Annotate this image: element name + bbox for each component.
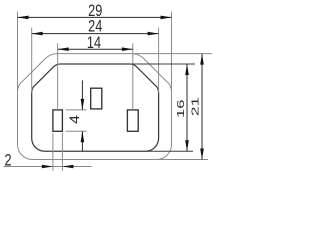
- extension line y=109.9 (slot top, for 4): [66, 109, 87, 111]
- arrowhead 4 up: [81, 131, 85, 142]
- extension line left x=31.7 (for 24): [31, 28, 33, 93]
- arrowhead 21 top: [200, 54, 204, 65]
- svg-text:2: 2: [4, 151, 11, 170]
- dimension line 4 upper tail: [81, 80, 83, 110]
- pin slot left (L): [53, 110, 63, 131]
- dimension line 2: [4, 166, 92, 168]
- arrowhead 14 right: [122, 47, 133, 51]
- dimension line 14: [58, 48, 133, 50]
- extension line top y=64 (inner top edge, for 16): [130, 63, 195, 65]
- extension line x=62.4 (slot right edge, for 2): [61, 133, 63, 171]
- extension line right x=158.6 (for 24): [158, 28, 160, 93]
- arrowhead 29 right: [161, 16, 172, 20]
- arrowhead 14 left: [58, 47, 69, 51]
- extension line y=131.3 (slot bottom, for 4): [66, 130, 87, 132]
- dimension line 24: [32, 33, 159, 35]
- outer outline (connector body, 29 x 21): [17, 54, 171, 160]
- dimension line 4 lower tail: [81, 131, 83, 151]
- svg-text:4: 4: [68, 115, 83, 124]
- arrowhead 21 bottom: [200, 149, 204, 160]
- arrowhead 16 top: [185, 64, 189, 75]
- arrowhead 29 left: [18, 16, 29, 20]
- dimension line 21 (vertical): [201, 54, 203, 160]
- extension line top y=53.6 (outer top edge, for 21): [133, 53, 212, 55]
- dimension line 29: [18, 16, 172, 18]
- extension line x=52.9 (slot left edge, for 2): [52, 133, 54, 171]
- svg-text:16: 16: [175, 100, 186, 118]
- pin slot center (earth): [91, 88, 102, 109]
- arrowhead 24 right: [148, 32, 159, 36]
- extension line right x=171.5 (for 29): [171, 12, 173, 93]
- arrowhead 2 left (pointing right): [42, 165, 53, 169]
- extension line x=132.8 (for 14, from right slot center): [132, 43, 134, 110]
- pin slot right (N): [127, 110, 138, 131]
- extension line bottom y=151.2 (inner bottom edge, for 16): [146, 150, 193, 152]
- arrowhead 2 right (pointing left): [62, 165, 73, 169]
- arrowhead 4 down: [81, 99, 85, 110]
- arrowhead 24 left: [32, 32, 43, 36]
- extension line left x=17.5 (for 29): [17, 12, 19, 93]
- svg-text:21: 21: [189, 97, 200, 116]
- dimension line 16 (vertical): [186, 64, 188, 151]
- inner outline (recess, 24 x 16): [32, 64, 159, 151]
- extension line bottom y=159.5 (outer bottom edge, for 21): [157, 159, 209, 161]
- extension line x=57.65 (for 14, from left slot center): [57, 43, 59, 110]
- arrowhead 16 bottom: [185, 140, 189, 151]
- svg-text:14: 14: [87, 33, 101, 52]
